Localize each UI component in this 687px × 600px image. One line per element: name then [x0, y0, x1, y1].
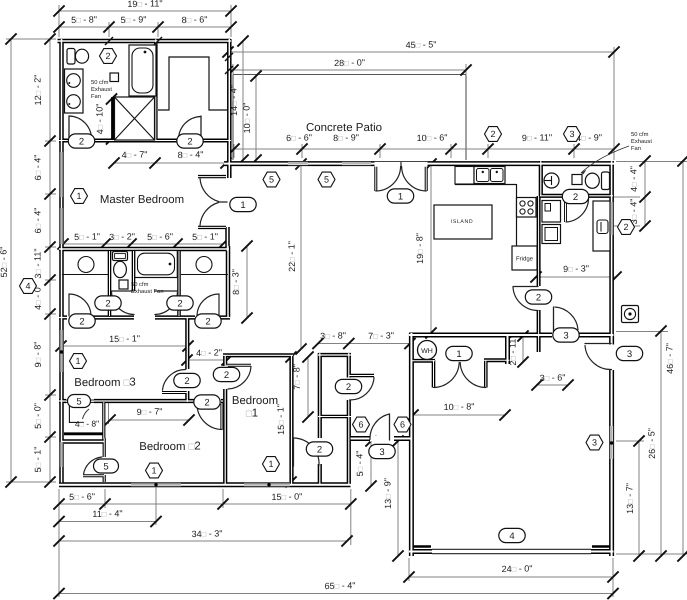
svg-text:5□ - 4": 5□ - 4" [355, 451, 366, 477]
window tag 5 a [263, 172, 280, 187]
dimension 13-7 [625, 435, 645, 561]
svg-text:26□ - 5": 26□ - 5" [647, 428, 658, 459]
dimension 14-4 [229, 35, 249, 165]
svg-text:2: 2 [346, 382, 351, 393]
svg-text:1: 1 [456, 349, 461, 360]
svg-text:9□ - 8": 9□ - 8" [33, 342, 44, 368]
svg-text:5: 5 [76, 396, 81, 407]
svg-text:2: 2 [623, 222, 628, 232]
svg-text:1: 1 [76, 191, 81, 201]
svg-text:2: 2 [187, 136, 192, 147]
door tag 1 garage french [446, 346, 472, 360]
svg-text:12□ - 2": 12□ - 2" [33, 75, 44, 106]
svg-text:28□ - 0": 28□ - 0" [334, 58, 365, 69]
door arcs [69, 116, 612, 475]
svg-text:4□ - 4": 4□ - 4" [629, 166, 640, 192]
svg-text:Bedroom □2: Bedroom □2 [139, 441, 201, 454]
dimension 19-8 [415, 158, 437, 338]
dimension master row 5-1 3-2 5-6 5-1 [57, 232, 228, 250]
svg-text:2: 2 [204, 397, 209, 408]
dimension 5-8 5-9 8-6 [53, 15, 236, 33]
svg-text:Bedroom □3: Bedroom □3 [74, 377, 136, 390]
svg-text:Concrete Patio: Concrete Patio [306, 122, 382, 134]
svg-text:Exhaust: Exhaust [631, 138, 652, 145]
dimension 9-7 [104, 403, 194, 426]
svg-text:WH: WH [421, 348, 433, 355]
dimension 13-9 [383, 435, 404, 561]
svg-text:9□ - 3": 9□ - 3" [563, 264, 589, 275]
svg-text:8□ - 4": 8□ - 4" [178, 150, 204, 161]
walls (inner core) [58, 39, 615, 556]
svg-text:1: 1 [240, 200, 245, 211]
svg-text:22□ - 1": 22□ - 1" [287, 241, 298, 272]
window tag hexagon 3 top [564, 127, 581, 142]
door tag 5 closet [68, 395, 91, 408]
svg-text:5□ - 6": 5□ - 6" [147, 232, 173, 243]
window tag 6 b [394, 417, 411, 432]
door tag 3 porch [369, 444, 395, 458]
svg-text:4□ - 8": 4□ - 8" [75, 419, 99, 430]
svg-text:5: 5 [324, 175, 329, 185]
svg-text:5: 5 [269, 175, 274, 185]
svg-text:2: 2 [184, 376, 189, 387]
svg-text:2: 2 [224, 370, 229, 381]
svg-text:Fridge: Fridge [516, 256, 534, 263]
svg-text:2: 2 [317, 444, 322, 455]
window tag 1 master [71, 189, 88, 204]
svg-text:□1: □1 [246, 408, 258, 420]
svg-text:8□ - 6": 8□ - 6" [182, 15, 208, 26]
dimension 5-4 [355, 435, 377, 491]
svg-text:3: 3 [592, 438, 597, 448]
door openings [66, 138, 615, 464]
svg-text:5□ - 9": 5□ - 9" [121, 15, 147, 26]
dimension 22-1 [287, 158, 307, 354]
svg-text:11□ - 4": 11□ - 4" [92, 509, 122, 520]
door tag 2 master bath [68, 134, 94, 148]
svg-text:4□ - 2": 4□ - 2" [196, 348, 222, 359]
svg-text:5□ - 6": 5□ - 6" [69, 492, 95, 503]
svg-text:4□ - 10": 4□ - 10" [95, 104, 106, 135]
dimension 15-1 bedroom3 [55, 334, 193, 352]
dimension 5-6 15-0 [53, 492, 356, 510]
dimension 65-4 [53, 581, 618, 600]
svg-text:9□ - 7": 9□ - 7" [137, 407, 163, 418]
door tag 2 walkin [177, 134, 203, 148]
door tag 2 kitchen hall [525, 290, 551, 304]
fixtures [62, 37, 639, 429]
dimension 19-11 top [53, 0, 236, 17]
svg-text:1: 1 [151, 466, 156, 476]
svg-text:3: 3 [563, 330, 568, 341]
dimension 9-3 [530, 264, 621, 283]
dimension 52-6 [0, 33, 17, 487]
svg-text:8□ - 9": 8□ - 9" [333, 133, 359, 144]
concrete patio outline [233, 75, 466, 161]
svg-text:50 cfm: 50 cfm [631, 131, 649, 138]
svg-text:Fan: Fan [631, 146, 641, 152]
svg-text:6: 6 [358, 420, 363, 430]
door tag 2 bath3 [562, 189, 588, 203]
svg-text:45□ - 5": 45□ - 5" [406, 40, 437, 51]
svg-text:Exhaust Fan: Exhaust Fan [131, 288, 164, 295]
svg-text:15□ - 1": 15□ - 1" [109, 334, 140, 345]
dimension 28-0 [227, 58, 471, 76]
svg-text:24□ - 0": 24□ - 0" [502, 564, 533, 575]
svg-text:2: 2 [177, 298, 182, 309]
window tag 2 masterbath [100, 49, 117, 64]
svg-text:2: 2 [490, 129, 495, 139]
svg-text:2: 2 [79, 136, 84, 147]
window tag hexagon 2 right [618, 220, 635, 235]
door tag 3 hall-garage [553, 328, 579, 342]
svg-text:34□ - 3": 34□ - 3" [192, 529, 223, 540]
svg-text:3□ - 8": 3□ - 8" [320, 331, 346, 342]
svg-text:52□ - 6": 52□ - 6" [0, 247, 9, 278]
svg-text:8□ - 3": 8□ - 3" [231, 269, 242, 295]
door tag 2 lower closet [306, 442, 332, 456]
svg-text:5□ - 1": 5□ - 1" [74, 232, 100, 243]
dimension 8-3 [231, 240, 253, 323]
svg-text:3: 3 [627, 349, 632, 360]
svg-text:50 cfm: 50 cfm [131, 281, 149, 288]
svg-text:65□ - 4": 65□ - 4" [325, 581, 356, 592]
dimension 11-4 [53, 509, 161, 528]
dimension 15-1 bedroom1 [276, 351, 297, 487]
door tag 2 bedroom3 [174, 373, 200, 387]
svg-text:5□ - 1": 5□ - 1" [192, 232, 218, 243]
svg-text:1: 1 [398, 191, 403, 202]
svg-text:4□ - 7": 4□ - 7" [122, 150, 148, 161]
svg-text:3□ - 6": 3□ - 6" [540, 373, 566, 384]
wall tag hexagon 4 [20, 279, 37, 294]
window tag 5 b [318, 172, 335, 187]
dimension 4-2 [181, 348, 232, 366]
svg-text:Exhaust: Exhaust [91, 86, 112, 93]
svg-text:10□ - 0": 10□ - 0" [242, 103, 253, 134]
svg-text:5□ - 8": 5□ - 8" [71, 15, 97, 26]
svg-text:50 cfm: 50 cfm [91, 79, 109, 86]
door tags bath2 [69, 314, 95, 328]
svg-text:19□ - 8": 19□ - 8" [415, 233, 426, 264]
windows [59, 152, 614, 487]
dimension left column [33, 33, 56, 487]
svg-text:2: 2 [105, 51, 110, 61]
dimension 34-3 [53, 529, 352, 547]
dimension 46-7 [665, 155, 687, 561]
svg-text:4: 4 [509, 531, 514, 542]
svg-text:Master Bedroom: Master Bedroom [100, 194, 184, 206]
svg-text:6□ - 4": 6□ - 4" [33, 155, 44, 181]
dimension 10-8 [407, 402, 510, 421]
dimension 3-8 7-3 [312, 331, 415, 350]
dimension 4-10 [95, 93, 118, 144]
window tag 6 a [353, 417, 370, 432]
svg-text:2: 2 [536, 292, 541, 303]
door tag 1 master bedroom [230, 197, 256, 211]
svg-text:3: 3 [569, 129, 574, 139]
svg-text:1: 1 [75, 356, 80, 366]
dimension 7-8 [292, 351, 314, 422]
dimension 24-0 [403, 564, 618, 583]
door tag 2 bedroom1 [213, 367, 239, 381]
window tag 1 bedroom3 [70, 354, 87, 369]
door tag 2 hall closet [335, 379, 361, 393]
slider: bedroom2 closet [66, 400, 94, 402]
svg-text:6□ - 4": 6□ - 4" [33, 208, 44, 234]
svg-text:3□ - 2": 3□ - 2" [109, 232, 135, 243]
door tag 3 garage side [616, 346, 642, 360]
svg-text:15□ - 0": 15□ - 0" [271, 492, 302, 503]
door tag 4 garage door [499, 528, 525, 542]
svg-text:3: 3 [379, 447, 384, 458]
svg-text:7□ - 3": 7□ - 3" [368, 331, 394, 342]
window tag 1 bedroom1 [263, 457, 280, 472]
svg-text:6□ - 6": 6□ - 6" [286, 133, 312, 144]
door tag 2 bedroom2 [194, 395, 220, 409]
svg-text:2: 2 [79, 316, 84, 327]
svg-text:6: 6 [400, 420, 405, 430]
dimension 4-4 3-4 right [629, 155, 651, 231]
room labels [74, 79, 652, 453]
walls (outer strokes) [58, 39, 615, 556]
door tag 5 bedroom2 left [94, 459, 119, 473]
window tag hexagon 2 top [485, 127, 502, 142]
svg-text:2: 2 [105, 298, 110, 309]
svg-text:4: 4 [25, 281, 30, 291]
svg-text:1: 1 [268, 459, 273, 469]
svg-text:19□ - 11": 19□ - 11" [127, 0, 162, 9]
svg-text:13□ - 9": 13□ - 9" [383, 478, 394, 509]
dimension 10-0 [242, 70, 262, 165]
dimension 4-7 8-4 [108, 150, 231, 169]
svg-text:5□ - 1": 5□ - 1" [33, 447, 44, 473]
dimension 26-5 [647, 325, 667, 561]
svg-text:2: 2 [205, 316, 210, 327]
svg-text:10□ - 8": 10□ - 8" [444, 402, 475, 413]
svg-text:46□ - 7": 46□ - 7" [665, 343, 676, 374]
dimension window row top [228, 133, 619, 155]
svg-text:10□ - 6": 10□ - 6" [417, 133, 448, 144]
dimension 45-5 [222, 40, 619, 58]
svg-text:3□ - 11": 3□ - 11" [33, 248, 44, 278]
svg-text:15□ - 1": 15□ - 1" [276, 404, 287, 435]
door tag 1 patio [387, 189, 413, 203]
svg-text:5: 5 [103, 461, 108, 472]
svg-text:5□ - 0": 5□ - 0" [33, 403, 44, 429]
svg-text:ISLAND: ISLAND [451, 219, 473, 225]
window tag 3 garage [586, 435, 603, 450]
dimension 3-6 [531, 373, 573, 391]
svg-text:9□ - 11": 9□ - 11" [522, 133, 552, 144]
dimension 2-11 [508, 330, 529, 367]
svg-text:Bedroom: Bedroom [232, 395, 278, 407]
svg-text:13□ - 7": 13□ - 7" [625, 483, 636, 514]
window tag 1 bedroom2 [146, 463, 163, 478]
svg-text:Fan: Fan [91, 94, 101, 100]
garage door [432, 549, 591, 555]
svg-text:2: 2 [573, 192, 578, 203]
